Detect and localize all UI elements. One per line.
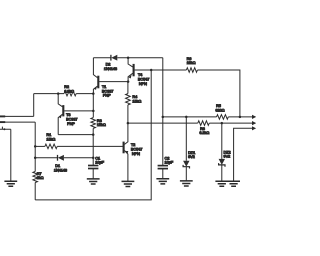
circuit schematic xyxy=(0,0,256,256)
node input dropper R1 junction xyxy=(34,145,37,148)
node DZ2 tap xyxy=(221,122,224,125)
wire T3 emitter jog xyxy=(58,134,93,136)
wire top rail right xyxy=(117,57,162,59)
output arrow 1 xyxy=(252,115,256,119)
diode D2 1N4148 xyxy=(110,55,112,61)
ground DZ2 xyxy=(215,181,228,186)
resistor R4 xyxy=(126,94,131,105)
wire shield drop xyxy=(10,129,12,181)
svg-text:6.2kΩ: 6.2kΩ xyxy=(199,130,209,135)
wire input riser xyxy=(33,94,35,117)
svg-text:1kΩ: 1kΩ xyxy=(37,175,44,180)
svg-text:6.8kΩ: 6.8kΩ xyxy=(64,88,74,93)
svg-text:NPN: NPN xyxy=(139,81,147,86)
resistor R6 xyxy=(186,68,197,73)
wire R1/T2-base row xyxy=(35,145,45,147)
zener DZ2 9V2 xyxy=(221,123,223,159)
node R2/T1 junction xyxy=(92,92,95,95)
input line 2 (return) xyxy=(0,121,35,123)
transistor T1 xyxy=(93,58,97,78)
node T3 collector junction xyxy=(57,92,60,95)
wire R6 to corner xyxy=(197,70,240,117)
wire R3 column top xyxy=(92,94,94,118)
input shield line xyxy=(0,127,11,130)
wire output row 3 xyxy=(234,128,253,181)
svg-text:15kΩ: 15kΩ xyxy=(132,98,141,103)
wire C1 to ground xyxy=(92,169,94,179)
svg-text:1N4148: 1N4148 xyxy=(104,66,117,71)
svg-text:620Ω: 620Ω xyxy=(215,107,224,112)
node R6 column junction xyxy=(239,116,242,119)
capacitor C2 xyxy=(158,165,168,167)
wire output row 2 xyxy=(128,122,198,124)
svg-text:9V2: 9V2 xyxy=(188,154,195,159)
node D1 junction right xyxy=(92,157,95,160)
wire R2 row xyxy=(34,93,64,95)
input line 1 (hot) xyxy=(0,115,34,117)
node row1 tap xyxy=(162,116,165,119)
zener DZ1 9V2 xyxy=(185,117,187,161)
transistor T2 xyxy=(123,142,125,154)
node T3 base junction xyxy=(92,110,95,113)
svg-text:10µF: 10µF xyxy=(165,160,174,165)
svg-text:10µF: 10µF xyxy=(95,160,104,165)
svg-text:15kΩ: 15kΩ xyxy=(46,136,55,141)
svg-text:PNP: PNP xyxy=(67,121,75,126)
resistor R3 xyxy=(91,118,96,129)
ground DZ1 xyxy=(180,181,193,186)
resistor R2 xyxy=(64,91,76,96)
wire top rail xyxy=(93,57,110,59)
wire R3 to C1 xyxy=(92,128,94,165)
wire output row 1 xyxy=(163,116,217,118)
resistor R8 xyxy=(198,121,210,126)
svg-text:NPN: NPN xyxy=(132,151,140,156)
node T4 collector junction xyxy=(127,56,130,59)
wire R4 top xyxy=(127,82,129,94)
svg-text:18kΩ: 18kΩ xyxy=(187,60,196,65)
node DZ1 tap xyxy=(185,116,188,119)
output arrow 3 xyxy=(252,126,256,130)
wire input dropper xyxy=(34,122,36,171)
ground input shield xyxy=(4,181,17,186)
resistor R7 xyxy=(33,172,38,183)
svg-text:9V2: 9V2 xyxy=(224,154,231,159)
node output row2 tap xyxy=(127,122,129,125)
node ground-column tap xyxy=(150,69,153,72)
wire supply column to C2 xyxy=(162,58,164,165)
wire C2 to ground xyxy=(162,169,164,179)
node T4 emitter / T1 base junction xyxy=(127,80,130,83)
wire D1 row xyxy=(35,157,57,159)
output arrow 2 xyxy=(252,121,256,125)
wire R2 to node xyxy=(76,93,93,95)
node input dropper D1 junction xyxy=(34,157,37,160)
ground output 3 xyxy=(227,181,240,186)
capacitor C1 xyxy=(88,165,98,167)
svg-text:PNP: PNP xyxy=(103,93,111,98)
ground T2 emitter xyxy=(122,181,135,186)
diode D1 1N4148 xyxy=(57,155,59,161)
wire ground return column xyxy=(35,70,151,200)
svg-text:1N4148: 1N4148 xyxy=(54,168,67,173)
resistor R1 xyxy=(45,144,57,149)
ground C2 xyxy=(156,179,169,184)
ground C1 xyxy=(87,179,100,184)
resistor R5 xyxy=(217,115,229,120)
node emitter jog junction xyxy=(92,133,95,136)
wire R1 to T2 base xyxy=(57,145,123,147)
transistor T4 xyxy=(128,58,133,67)
svg-text:15kΩ: 15kΩ xyxy=(97,122,106,127)
wire T4 base row xyxy=(135,69,187,71)
transistor T3 xyxy=(58,94,62,107)
